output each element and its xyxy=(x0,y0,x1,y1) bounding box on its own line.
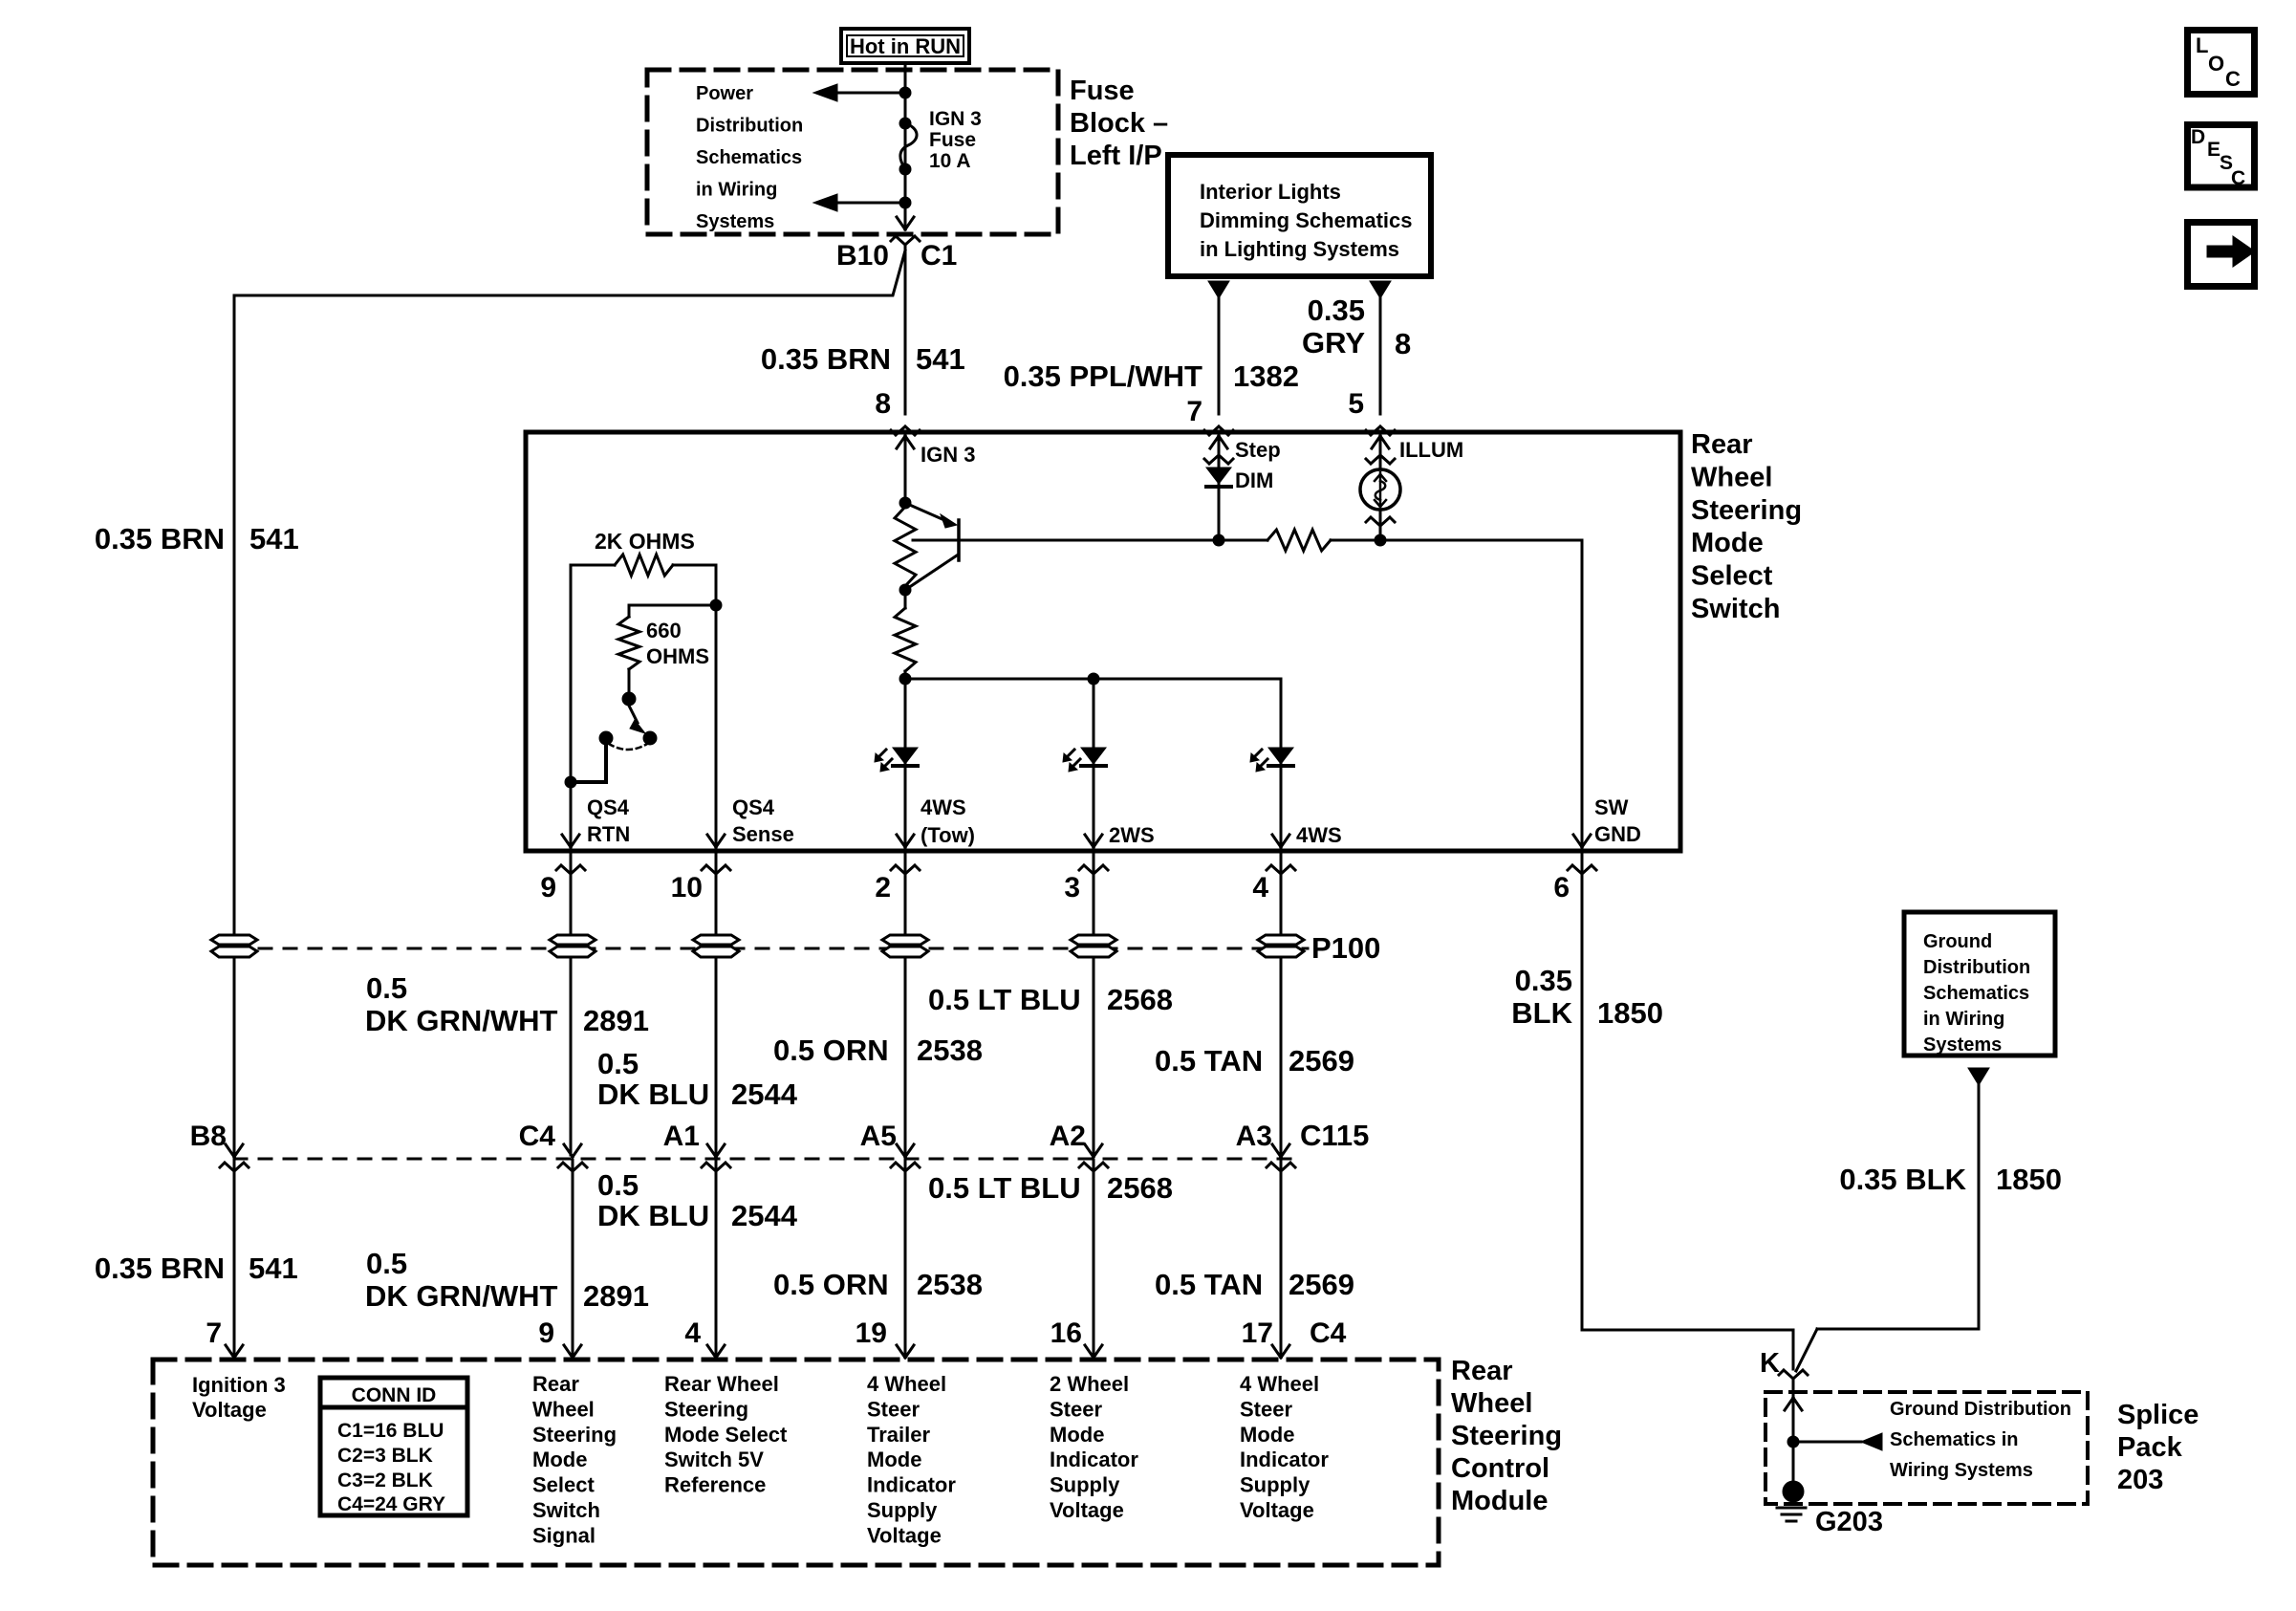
svg-text:8: 8 xyxy=(875,388,891,420)
node lower tap xyxy=(899,584,911,596)
wire wiper output across switch xyxy=(913,539,1267,542)
connector P100 at x=599 xyxy=(550,935,596,945)
svg-text:Wiring Systems: Wiring Systems xyxy=(1890,1460,2033,1481)
node indicator feed xyxy=(899,673,911,685)
svg-text:E: E xyxy=(2207,139,2220,161)
svg-text:Switch 5V: Switch 5V xyxy=(664,1448,764,1471)
svg-text:O: O xyxy=(2208,52,2224,76)
DESC icon xyxy=(2188,125,2255,190)
potentiometer upper section xyxy=(899,497,911,509)
svg-text:DK GRN/WHT: DK GRN/WHT xyxy=(365,1279,558,1313)
svg-text:1850: 1850 xyxy=(1996,1163,2062,1196)
svg-text:Rear: Rear xyxy=(1691,429,1753,460)
svg-text:C1: C1 xyxy=(921,240,957,272)
svg-text:SW: SW xyxy=(1594,795,1629,819)
svg-text:Schematics: Schematics xyxy=(696,147,802,168)
svg-text:Interior Lights: Interior Lights xyxy=(1200,180,1341,204)
svg-text:Trailer: Trailer xyxy=(867,1423,930,1447)
arrow leaving fuse block xyxy=(897,217,914,229)
svg-text:Steer: Steer xyxy=(1050,1397,1102,1421)
svg-text:CONN ID: CONN ID xyxy=(352,1384,437,1406)
svg-text:10 A: 10 A xyxy=(929,150,971,172)
Hot in RUN label box xyxy=(841,29,969,63)
svg-text:4 Wheel: 4 Wheel xyxy=(867,1372,946,1396)
wire 0.35 GRY 8 xyxy=(1370,281,1391,298)
svg-text:0.35 BRN: 0.35 BRN xyxy=(95,522,225,555)
svg-text:19: 19 xyxy=(856,1317,887,1349)
svg-text:541: 541 xyxy=(249,1252,298,1285)
svg-text:0.35: 0.35 xyxy=(1515,964,1572,997)
svg-text:C4=24 GRY: C4=24 GRY xyxy=(337,1493,445,1515)
LED 2WS xyxy=(1081,748,1106,764)
svg-text:2538: 2538 xyxy=(917,1268,983,1301)
svg-text:Voltage: Voltage xyxy=(192,1398,267,1422)
svg-text:Switch: Switch xyxy=(532,1498,600,1522)
pin 4 function xyxy=(664,1372,788,1497)
wire from Hot in RUN through fuse xyxy=(904,63,907,229)
resistor lower (pot bottom) xyxy=(904,590,907,608)
svg-text:Control: Control xyxy=(1451,1453,1549,1484)
svg-text:Power: Power xyxy=(696,83,753,104)
pin 9 function xyxy=(532,1372,617,1547)
wire 0.35 PPL/WHT 1382 xyxy=(1208,281,1229,298)
switch contact (selected) xyxy=(643,731,657,745)
svg-text:Voltage: Voltage xyxy=(867,1523,942,1547)
svg-text:Select: Select xyxy=(532,1473,595,1497)
wire arrow to power distribution schematics (upper) xyxy=(822,92,905,95)
svg-text:2544: 2544 xyxy=(731,1078,798,1111)
svg-text:9: 9 xyxy=(540,872,556,903)
wire arrow to power distribution schematics (lower) xyxy=(822,202,905,205)
svg-text:RTN: RTN xyxy=(587,822,630,846)
svg-text:541: 541 xyxy=(249,522,299,555)
svg-text:Voltage: Voltage xyxy=(1050,1498,1124,1522)
svg-text:6: 6 xyxy=(1553,872,1570,903)
wire to indicator LEDs xyxy=(905,678,1281,681)
svg-text:Steering: Steering xyxy=(532,1423,617,1447)
wiper arrow xyxy=(905,503,944,520)
connector P100 at x=245 xyxy=(211,935,257,945)
svg-text:0.5 LT BLU: 0.5 LT BLU xyxy=(928,1171,1081,1205)
svg-text:541: 541 xyxy=(916,342,965,376)
svg-text:2568: 2568 xyxy=(1107,1171,1173,1205)
illumination lamp xyxy=(1360,469,1400,510)
svg-text:2891: 2891 xyxy=(583,1279,649,1313)
svg-text:Rear: Rear xyxy=(532,1372,579,1396)
module entry arrows xyxy=(226,1345,243,1358)
label: Splice Pack 203 xyxy=(2117,1400,2199,1495)
svg-text:Systems: Systems xyxy=(696,211,774,232)
svg-text:Mode: Mode xyxy=(867,1448,921,1471)
svg-text:Fuse: Fuse xyxy=(1070,76,1135,106)
node: tap to power distribution (lower) xyxy=(899,197,911,208)
svg-text:DK BLU: DK BLU xyxy=(597,1199,709,1232)
pin IGN 3 entry arrow xyxy=(897,436,914,448)
svg-text:Sense: Sense xyxy=(732,822,794,846)
svg-text:in Wiring: in Wiring xyxy=(1923,1009,2004,1030)
wires C115 to module xyxy=(572,1160,574,1356)
fuse block dashed box Fuse Block - Left I/P xyxy=(647,70,1058,234)
svg-text:10: 10 xyxy=(671,872,703,903)
svg-text:Rear Wheel: Rear Wheel xyxy=(664,1372,779,1396)
svg-text:Left I/P: Left I/P xyxy=(1070,141,1162,171)
rear wheel steering mode select switch box xyxy=(526,432,1680,851)
svg-text:1382: 1382 xyxy=(1233,359,1299,393)
connector P100 at x=1340 xyxy=(1258,935,1304,945)
svg-text:Steering: Steering xyxy=(1691,495,1802,526)
svg-text:3: 3 xyxy=(1064,872,1080,903)
svg-text:L: L xyxy=(2196,33,2208,57)
svg-text:Ground: Ground xyxy=(1923,931,1992,952)
svg-text:B10: B10 xyxy=(836,240,889,272)
node: tap to power distribution (upper) xyxy=(899,87,911,98)
svg-text:DK BLU: DK BLU xyxy=(597,1078,709,1111)
switch exit arrows pins 9 10 2 3 4 6 xyxy=(562,835,579,847)
svg-text:Voltage: Voltage xyxy=(1240,1498,1314,1522)
svg-text:Schematics: Schematics xyxy=(1923,983,2029,1004)
svg-text:0.5: 0.5 xyxy=(597,1168,639,1202)
svg-text:Indicator: Indicator xyxy=(867,1473,956,1497)
wire branch to left riser xyxy=(234,250,905,295)
svg-text:0.35 BRN: 0.35 BRN xyxy=(761,342,891,376)
svg-text:Switch: Switch xyxy=(1691,594,1780,624)
LOC icon xyxy=(2188,31,2255,95)
svg-text:Mode: Mode xyxy=(1691,528,1764,558)
CONN ID table xyxy=(320,1378,467,1515)
svg-text:9: 9 xyxy=(538,1317,554,1349)
wire run to splice xyxy=(1582,1329,1793,1332)
svg-text:Supply: Supply xyxy=(1050,1473,1120,1497)
svg-text:0.35: 0.35 xyxy=(1308,294,1365,327)
svg-text:0.5 ORN: 0.5 ORN xyxy=(773,1034,889,1067)
svg-text:C115: C115 xyxy=(1300,1119,1369,1152)
svg-text:C1=16 BLU: C1=16 BLU xyxy=(337,1420,444,1442)
connector C115 xyxy=(226,1144,243,1157)
svg-text:203: 203 xyxy=(2117,1465,2163,1495)
svg-text:Indicator: Indicator xyxy=(1240,1448,1329,1471)
dashed travel arc xyxy=(609,744,647,750)
interior lights dimming schematics box xyxy=(1168,155,1431,276)
connector P100 at x=749 xyxy=(693,935,739,945)
svg-text:BLK: BLK xyxy=(1511,996,1572,1030)
svg-text:Systems: Systems xyxy=(1923,1034,2002,1056)
connector K at splice pack xyxy=(1779,1370,1808,1379)
svg-text:IGN 3: IGN 3 xyxy=(921,443,975,467)
wire SW GND drop xyxy=(1581,540,1584,849)
wire from common contact xyxy=(571,738,606,782)
svg-text:4 Wheel: 4 Wheel xyxy=(1240,1372,1319,1396)
svg-text:Supply: Supply xyxy=(867,1498,938,1522)
label: Rear Wheel Steering Control Module xyxy=(1451,1356,1562,1516)
svg-text:5: 5 xyxy=(1348,388,1364,420)
wire 0.35 BLK 1850 from ground distribution xyxy=(1968,1068,1989,1085)
switch contact (common) xyxy=(599,731,613,745)
svg-text:0.35 BRN: 0.35 BRN xyxy=(95,1252,225,1285)
connector P100 dashed line xyxy=(234,947,1308,950)
svg-text:Pack: Pack xyxy=(2117,1432,2183,1463)
svg-text:Step: Step xyxy=(1235,438,1281,462)
svg-text:8: 8 xyxy=(1395,327,1411,360)
resistor (lamp dropping) xyxy=(1267,530,1331,551)
svg-text:Steer: Steer xyxy=(867,1397,920,1421)
svg-text:D: D xyxy=(2191,126,2205,148)
svg-text:0.5 TAN: 0.5 TAN xyxy=(1155,1044,1263,1078)
svg-text:Mode Select: Mode Select xyxy=(664,1423,788,1447)
diode (step dim) xyxy=(1206,468,1231,484)
note: Power Distribution Schematics in Wiring Systems xyxy=(696,83,803,232)
svg-text:0.5: 0.5 xyxy=(597,1047,639,1080)
fuse IGN 3 Fuse 10 A xyxy=(899,108,982,175)
svg-text:Wheel: Wheel xyxy=(1691,462,1772,492)
svg-text:0.35 PPL/WHT: 0.35 PPL/WHT xyxy=(1004,359,1202,393)
pin ILLUM entry arrow xyxy=(1372,436,1389,448)
svg-text:QS4: QS4 xyxy=(732,795,775,819)
wire 0.35 BRN 541 left riser xyxy=(233,295,236,1358)
svg-text:P100: P100 xyxy=(1311,931,1380,965)
svg-text:Module: Module xyxy=(1451,1486,1549,1516)
svg-text:A5: A5 xyxy=(860,1121,897,1152)
svg-text:Ignition 3: Ignition 3 xyxy=(192,1373,286,1397)
wires leaving switch xyxy=(570,853,573,1155)
svg-text:0.5: 0.5 xyxy=(366,971,407,1005)
svg-text:2: 2 xyxy=(875,872,891,903)
svg-text:Select: Select xyxy=(1691,561,1773,592)
svg-text:2568: 2568 xyxy=(1107,983,1173,1016)
svg-text:17: 17 xyxy=(1242,1317,1273,1349)
svg-text:0.5 ORN: 0.5 ORN xyxy=(773,1268,889,1301)
svg-text:4: 4 xyxy=(1252,872,1268,903)
svg-text:16: 16 xyxy=(1051,1317,1082,1349)
svg-text:2569: 2569 xyxy=(1289,1268,1354,1301)
svg-text:2891: 2891 xyxy=(583,1004,649,1037)
svg-text:A2: A2 xyxy=(1050,1121,1086,1152)
svg-text:(Tow): (Tow) xyxy=(921,823,975,847)
svg-text:7: 7 xyxy=(1186,396,1202,427)
svg-text:C: C xyxy=(2231,167,2245,189)
forward arrow icon xyxy=(2188,223,2256,287)
svg-text:0.5 TAN: 0.5 TAN xyxy=(1155,1268,1263,1301)
ground distribution schematics box xyxy=(1904,912,2055,1056)
wire 0.35 BRN 541 vertical to switch xyxy=(904,245,907,414)
svg-text:Ground Distribution: Ground Distribution xyxy=(1890,1399,2071,1420)
connector P100 at x=1144 xyxy=(1071,935,1116,945)
svg-text:A1: A1 xyxy=(663,1121,700,1152)
LED 4WS xyxy=(1268,748,1293,764)
LED 4WS (Tow) xyxy=(893,748,918,764)
svg-text:Signal: Signal xyxy=(532,1523,596,1547)
svg-text:C3=2 BLK: C3=2 BLK xyxy=(337,1469,433,1491)
pin 17 function xyxy=(1240,1372,1329,1522)
svg-text:Splice: Splice xyxy=(2117,1400,2199,1430)
svg-text:7: 7 xyxy=(206,1317,222,1349)
svg-text:Mode: Mode xyxy=(532,1448,587,1471)
svg-text:Indicator: Indicator xyxy=(1050,1448,1138,1471)
svg-text:Dimming Schematics: Dimming Schematics xyxy=(1200,208,1413,232)
svg-text:Supply: Supply xyxy=(1240,1473,1310,1497)
svg-text:Schematics in: Schematics in xyxy=(1890,1429,2019,1450)
svg-text:in Wiring: in Wiring xyxy=(696,180,777,201)
svg-text:Block –: Block – xyxy=(1070,108,1168,139)
svg-text:QS4: QS4 xyxy=(587,795,630,819)
svg-text:GRY: GRY xyxy=(1302,326,1365,359)
svg-text:Reference: Reference xyxy=(664,1473,766,1497)
wire SW GND 0.35 BLK 1850 xyxy=(1581,853,1584,1330)
svg-text:C4: C4 xyxy=(1310,1317,1347,1349)
svg-text:OHMS: OHMS xyxy=(646,644,709,668)
svg-text:4WS: 4WS xyxy=(921,795,966,819)
svg-text:2569: 2569 xyxy=(1289,1044,1354,1078)
svg-text:in Lighting Systems: in Lighting Systems xyxy=(1200,237,1399,261)
svg-text:Fuse: Fuse xyxy=(929,129,976,151)
svg-text:GND: GND xyxy=(1594,822,1641,846)
svg-text:4WS: 4WS xyxy=(1296,823,1342,847)
svg-text:Rear: Rear xyxy=(1451,1356,1513,1386)
svg-text:Steering: Steering xyxy=(1451,1421,1562,1451)
svg-text:2538: 2538 xyxy=(917,1034,983,1067)
connector P100 at x=947 xyxy=(882,935,928,945)
pin Step DIM entry arrow xyxy=(1210,436,1227,448)
svg-text:Mode: Mode xyxy=(1240,1423,1294,1447)
svg-text:DK GRN/WHT: DK GRN/WHT xyxy=(365,1004,558,1037)
pin 16 function xyxy=(1050,1372,1138,1522)
svg-text:Hot in RUN: Hot in RUN xyxy=(850,34,961,58)
svg-text:4: 4 xyxy=(684,1317,701,1349)
svg-text:Wheel: Wheel xyxy=(1451,1388,1532,1419)
wire QS4 Sense leg xyxy=(715,565,718,849)
pin 19 function xyxy=(867,1372,956,1547)
svg-text:Wheel: Wheel xyxy=(532,1397,595,1421)
svg-text:2544: 2544 xyxy=(731,1199,798,1232)
svg-text:0.5 LT BLU: 0.5 LT BLU xyxy=(928,983,1081,1016)
wire QS4 RTN leg xyxy=(570,565,573,849)
arrow to ground distribution schematics xyxy=(1793,1441,1861,1444)
wire into splice xyxy=(1792,1379,1795,1491)
svg-text:0.5: 0.5 xyxy=(366,1247,407,1280)
svg-text:DIM: DIM xyxy=(1235,468,1273,492)
resistor 660 OHMS xyxy=(710,599,722,611)
label: Rear Wheel Steering Mode Select Switch xyxy=(1691,429,1802,624)
svg-text:2 Wheel: 2 Wheel xyxy=(1050,1372,1129,1396)
svg-text:Steer: Steer xyxy=(1240,1397,1292,1421)
svg-text:1850: 1850 xyxy=(1597,996,1663,1030)
svg-text:C: C xyxy=(2225,67,2241,91)
svg-text:0.35 BLK: 0.35 BLK xyxy=(1839,1163,1966,1196)
splice node xyxy=(1787,1436,1799,1448)
svg-text:C4: C4 xyxy=(519,1121,556,1152)
rear wheel steering control module dashed box xyxy=(153,1360,1439,1565)
svg-text:G203: G203 xyxy=(1815,1507,1883,1537)
svg-text:2K OHMS: 2K OHMS xyxy=(595,529,695,554)
svg-text:A3: A3 xyxy=(1236,1121,1272,1152)
ground G203 xyxy=(1783,1481,1804,1502)
splice pack 203 dashed box xyxy=(1765,1392,2088,1504)
svg-text:B8: B8 xyxy=(190,1121,227,1152)
rotary switch wiper arm xyxy=(622,692,636,706)
connector C1 pin B10 xyxy=(891,236,920,245)
svg-text:IGN 3: IGN 3 xyxy=(929,108,982,130)
svg-text:Distribution: Distribution xyxy=(1923,957,2030,978)
svg-text:2WS: 2WS xyxy=(1109,823,1155,847)
svg-text:Mode: Mode xyxy=(1050,1423,1104,1447)
label: Fuse Block - Left I/P xyxy=(1070,76,1168,171)
svg-text:C2=3 BLK: C2=3 BLK xyxy=(337,1445,433,1467)
svg-text:660: 660 xyxy=(646,619,682,642)
svg-text:Steering: Steering xyxy=(664,1397,748,1421)
svg-text:Distribution: Distribution xyxy=(696,116,803,137)
svg-text:ILLUM: ILLUM xyxy=(1399,438,1463,462)
svg-text:K: K xyxy=(1760,1348,1780,1379)
